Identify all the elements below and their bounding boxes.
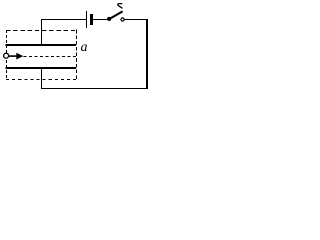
capacitor bottom plate: [6, 67, 77, 69]
dashed field-region box: bottom edge: [6, 79, 77, 81]
wire: top horizontal, left segment to battery: [41, 19, 86, 21]
wire: right vertical: [146, 19, 148, 89]
wire: switch to top-right corner: [125, 19, 148, 21]
background: [0, 0, 153, 93]
dashed field-region box: top edge: [6, 30, 77, 32]
wire: vertical feed from top wire to top plate: [41, 19, 43, 45]
dashed field-region box: left edge: [6, 30, 8, 80]
velocity arrow head: [16, 53, 23, 60]
capacitor top plate: [6, 44, 77, 46]
wire: bottom horizontal: [41, 88, 148, 90]
velocity arrow shaft: [9, 55, 17, 57]
switch pivot dot: [107, 17, 111, 21]
svg-text:a: a: [81, 40, 88, 55]
label S: [118, 4, 123, 9]
wire: vertical feed from bottom plate to bottom wire: [41, 68, 43, 89]
wire: battery to switch pivot: [93, 19, 107, 21]
battery long plate (+): [86, 11, 88, 28]
switch blade (open): [109, 11, 122, 19]
dashed field-region box: right edge: [76, 30, 78, 80]
switch open contact circle: [121, 18, 124, 21]
battery short plate (-): [90, 14, 93, 25]
entry hole circle on left edge: [4, 53, 9, 58]
particle trajectory dashed line: [24, 56, 77, 58]
